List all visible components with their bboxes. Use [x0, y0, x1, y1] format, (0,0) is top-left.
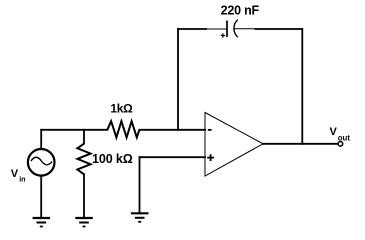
svg-text:100 kΩ: 100 kΩ — [92, 152, 133, 166]
svg-text:in: in — [19, 175, 25, 184]
svg-text:220 nF: 220 nF — [221, 4, 260, 18]
svg-text:1kΩ: 1kΩ — [110, 101, 133, 115]
svg-text:V: V — [11, 168, 19, 180]
svg-text:V: V — [330, 126, 338, 138]
svg-text:out: out — [338, 133, 351, 142]
